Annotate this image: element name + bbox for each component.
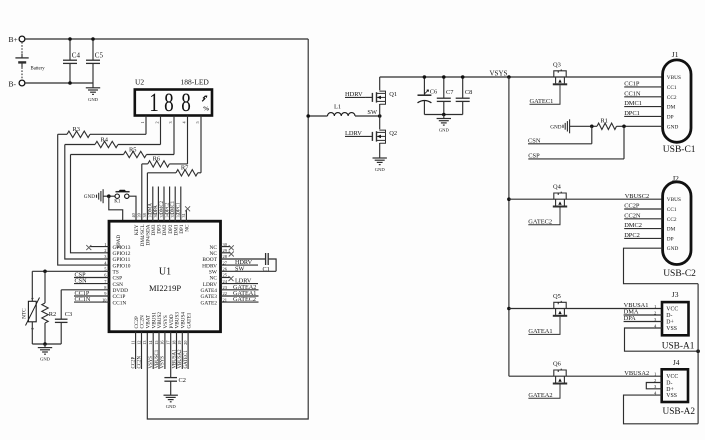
node CC2N	[624, 218, 662, 220]
capacitor C6 (polarized)	[423, 77, 425, 95]
node VBUSA2	[181, 332, 183, 369]
svg-text:CC2: CC2	[667, 95, 677, 101]
wire pin8 DVDD to C3	[61, 289, 109, 291]
svg-text:DP: DP	[667, 114, 674, 120]
capacitor C8	[462, 77, 464, 98]
svg-text:VCC: VCC	[666, 307, 678, 313]
node CC1P	[74, 295, 109, 297]
svg-text:GATE1: GATE1	[186, 312, 192, 328]
svg-text:GND: GND	[166, 404, 177, 409]
svg-text:GND: GND	[667, 124, 679, 130]
svg-text:1: 1	[149, 87, 159, 117]
svg-text:DMC1: DMC1	[171, 200, 176, 214]
svg-text:CC2: CC2	[667, 217, 677, 223]
node CSN	[591, 126, 593, 144]
ground (C2)	[164, 394, 178, 396]
transistor Q2	[379, 116, 381, 129]
wire J3 VSS loop	[625, 328, 699, 351]
node VSYS	[164, 332, 166, 369]
battery Battery	[21, 42, 23, 54]
wire R5 to GPIO12	[71, 155, 110, 253]
svg-text:VSS: VSS	[666, 393, 677, 399]
node LDRV	[221, 283, 259, 285]
svg-text:D-: D-	[666, 381, 672, 387]
node DPC2	[169, 187, 171, 222]
svg-text:1: 1	[31, 297, 35, 299]
node DMC1	[624, 106, 662, 108]
wire NTC/R2/C3 bottom	[32, 343, 61, 345]
resistor R5	[71, 154, 124, 156]
wire pin1 NC	[90, 246, 109, 248]
wire GND bus right vertical	[697, 284, 699, 424]
svg-text:GATE4: GATE4	[201, 288, 218, 294]
svg-text:39: 39	[136, 213, 141, 217]
svg-text:GND: GND	[88, 97, 99, 102]
svg-text:31: 31	[181, 213, 186, 217]
svg-text:38: 38	[142, 213, 147, 217]
svg-text:15: 15	[154, 341, 159, 345]
svg-text:DM: DM	[667, 105, 676, 111]
svg-text:HDRV: HDRV	[345, 91, 363, 98]
wire gnd to K1	[103, 195, 115, 197]
svg-text:D+: D+	[666, 320, 673, 326]
wire VSYS vertical rail	[508, 77, 510, 376]
svg-text:NC: NC	[185, 224, 191, 232]
node CSP	[74, 277, 109, 279]
node GATEA1	[221, 295, 259, 297]
svg-text:DPC1: DPC1	[177, 202, 182, 215]
svg-text:GND: GND	[84, 194, 95, 200]
node DMA	[624, 314, 662, 316]
node CC1N	[74, 301, 109, 303]
svg-text:GATEA2: GATEA2	[528, 392, 552, 399]
svg-text:CSP: CSP	[113, 276, 123, 282]
wire display pin 4	[187, 116, 189, 164]
svg-text:Battery: Battery	[31, 66, 46, 71]
pushbutton K1	[115, 194, 119, 198]
wire display pin 5	[200, 116, 202, 173]
wire VSYS to J3 VCC	[507, 307, 511, 311]
svg-text:NC: NC	[210, 245, 218, 251]
svg-text:Q2: Q2	[389, 130, 397, 137]
svg-text:CC1P: CC1P	[624, 81, 640, 88]
ground (C7)	[443, 115, 445, 119]
svg-text:U1: U1	[159, 267, 171, 278]
svg-text:C1: C1	[263, 266, 270, 273]
node CC2P	[624, 208, 662, 210]
thermistor NTC	[31, 271, 33, 301]
node LDRV (Q2 gate)	[345, 135, 372, 137]
wire C6/C7/C8 bottom	[424, 114, 462, 116]
svg-text:Q6: Q6	[553, 361, 561, 368]
svg-text:VSYS: VSYS	[161, 356, 166, 369]
wire J2 GND loop	[624, 248, 699, 284]
node DMC2	[624, 228, 662, 230]
wire K1 to EPAD pin41	[109, 196, 123, 221]
svg-text:GATEC1: GATEC1	[530, 98, 554, 105]
svg-text:GATEA1: GATEA1	[528, 328, 552, 335]
transistor Q5	[554, 302, 566, 308]
svg-text:GND: GND	[550, 124, 561, 130]
capacitor C7	[443, 77, 445, 98]
svg-text:D+: D+	[666, 387, 673, 393]
svg-text:C3: C3	[65, 311, 72, 318]
svg-text:C5: C5	[95, 52, 104, 60]
svg-text:DPA: DPA	[624, 315, 637, 322]
svg-text:17: 17	[166, 341, 171, 345]
svg-text:GATEC2: GATEC2	[528, 219, 552, 226]
svg-text:CC2P: CC2P	[131, 357, 136, 369]
node CSP	[623, 126, 625, 159]
node DPC2	[624, 237, 662, 239]
svg-text:SW: SW	[209, 270, 218, 276]
svg-text:R7: R7	[181, 165, 189, 172]
svg-text:GATEC2: GATEC2	[233, 296, 256, 303]
svg-text:SW: SW	[235, 265, 244, 272]
svg-text:CC1: CC1	[667, 207, 677, 213]
svg-text:GND: GND	[439, 128, 450, 133]
svg-text:R5: R5	[129, 146, 136, 153]
svg-text:R4: R4	[101, 136, 109, 143]
node DPA	[157, 187, 159, 222]
svg-text:DPC2: DPC2	[624, 232, 640, 239]
svg-text:CC2N: CC2N	[137, 356, 142, 369]
svg-text:C4: C4	[72, 52, 81, 60]
node SW	[221, 270, 277, 272]
svg-text:2: 2	[104, 248, 106, 253]
svg-text:B+: B+	[9, 35, 18, 44]
svg-text:C7: C7	[446, 89, 454, 96]
svg-text:CC1N: CC1N	[113, 300, 127, 306]
svg-text:DPC1: DPC1	[624, 110, 640, 117]
svg-text:CC2P: CC2P	[624, 203, 640, 210]
svg-text:DM: DM	[667, 227, 676, 233]
node GATEC1	[187, 332, 189, 369]
svg-text:LDRV: LDRV	[203, 282, 217, 288]
svg-text:VSYS: VSYS	[490, 69, 508, 77]
wire B+ to L1 and VBAT loop	[147, 39, 308, 419]
svg-text:19: 19	[177, 341, 182, 345]
svg-text:CSN: CSN	[113, 282, 124, 288]
svg-text:USB-A1: USB-A1	[662, 341, 695, 351]
wire R3 to GPIO10	[58, 134, 109, 265]
ground (Q2 source)	[373, 157, 387, 159]
node CC1N	[624, 96, 662, 98]
wire K1 to KEY pin40	[129, 196, 136, 221]
wire R6 to DM4/SCL	[141, 164, 143, 221]
svg-text:TS: TS	[113, 270, 119, 276]
wire VSYS rail	[380, 76, 663, 78]
svg-text:USB-A2: USB-A2	[663, 407, 696, 417]
node CC2N	[141, 332, 143, 369]
node CC1P	[624, 86, 662, 88]
svg-text:8: 8	[181, 87, 191, 117]
svg-text:GPIO12: GPIO12	[113, 251, 131, 257]
resistor R4	[65, 144, 95, 146]
svg-text:SW: SW	[367, 109, 378, 116]
svg-text:R2: R2	[49, 311, 56, 318]
svg-text:J4: J4	[673, 358, 680, 367]
wire pin5 TS	[32, 270, 109, 272]
wire pin25 NC	[221, 277, 231, 279]
svg-text:U2: U2	[135, 78, 144, 87]
svg-text:GATEC1: GATEC1	[184, 350, 189, 369]
svg-text:8: 8	[164, 87, 174, 117]
svg-text:GND: GND	[667, 246, 679, 252]
svg-text:13: 13	[142, 341, 147, 345]
svg-text:DVDD: DVDD	[113, 288, 129, 294]
wire R4 to GPIO11	[65, 145, 109, 260]
svg-text:Q1: Q1	[389, 91, 397, 98]
transistor Q1	[379, 77, 381, 90]
ground (NTC/R2/C3)	[44, 344, 46, 348]
svg-text:5: 5	[195, 121, 200, 123]
node HDRV (Q1 gate)	[345, 96, 365, 98]
svg-text:USB-C2: USB-C2	[663, 269, 696, 279]
svg-text:VBUSC2: VBUSC2	[625, 193, 650, 200]
wire pin30 NC	[221, 246, 231, 248]
svg-text:GND: GND	[40, 357, 51, 362]
svg-text:D-: D-	[666, 313, 672, 319]
node VBUSA1	[176, 332, 178, 369]
svg-text:VCC: VCC	[666, 374, 678, 380]
svg-text:J3: J3	[672, 290, 679, 299]
transistor Q4	[554, 193, 566, 199]
node DMC2	[163, 187, 165, 222]
svg-text:16: 16	[160, 341, 165, 345]
svg-text:VBUS: VBUS	[667, 197, 681, 203]
svg-text:HDRV: HDRV	[202, 263, 217, 269]
svg-text:GATE2: GATE2	[201, 300, 218, 306]
wire J4 D-/D+ jumper	[646, 383, 661, 389]
resistor R2	[44, 271, 46, 303]
transistor Q6	[554, 370, 566, 376]
svg-text:1: 1	[140, 121, 145, 123]
node DMA	[152, 187, 154, 222]
node CSN	[74, 283, 109, 285]
capacitor C5	[92, 39, 94, 60]
node VBUSC1	[158, 332, 160, 369]
svg-text:VBUSC1: VBUSC1	[155, 349, 160, 368]
svg-text:B-: B-	[9, 80, 17, 89]
resistor R3	[58, 133, 67, 135]
svg-text:GPIO11: GPIO11	[113, 257, 131, 263]
capacitor C1 (BOOT to SW)	[221, 258, 266, 260]
wire pin29 NC	[221, 252, 231, 254]
node DMC1	[174, 187, 176, 222]
capacitor C3	[60, 290, 62, 319]
svg-text:J1: J1	[672, 50, 679, 59]
svg-text:GPIO13: GPIO13	[113, 245, 131, 251]
svg-text:2: 2	[155, 121, 160, 123]
svg-text:K1: K1	[114, 200, 121, 205]
svg-text:NC: NC	[210, 276, 218, 282]
node CC2P	[135, 332, 137, 369]
node HDRV	[221, 264, 259, 266]
svg-text:NC: NC	[210, 251, 218, 257]
svg-text:R6: R6	[153, 156, 160, 163]
svg-text:GPIO10: GPIO10	[113, 263, 131, 269]
svg-text:L1: L1	[334, 104, 341, 111]
svg-text:VSYS: VSYS	[149, 356, 154, 369]
wire J4 VSS loop	[624, 395, 699, 424]
node GATEA2	[221, 289, 259, 291]
node DPC1	[624, 115, 662, 117]
resistor R6	[142, 163, 148, 165]
svg-text:C2: C2	[179, 377, 186, 384]
wire display pin 1	[145, 116, 147, 135]
svg-text:Q5: Q5	[553, 293, 561, 300]
svg-text:CC1: CC1	[667, 85, 677, 91]
svg-text:VSS: VSS	[666, 326, 677, 332]
svg-text:CC1N: CC1N	[75, 296, 91, 303]
wire R7 to DP4/SDA	[146, 173, 148, 221]
svg-text:VBUSA2: VBUSA2	[178, 349, 183, 369]
svg-text:C6: C6	[430, 89, 437, 96]
node GATEC2	[221, 301, 259, 303]
svg-text:CSP: CSP	[528, 153, 540, 160]
svg-text:12: 12	[136, 341, 141, 345]
lightning icon	[202, 96, 205, 101]
svg-text:GND: GND	[375, 167, 386, 172]
transistor Q3	[554, 71, 566, 77]
svg-text:DMA: DMA	[149, 203, 154, 215]
wire display pin 3	[173, 116, 175, 155]
wire VSYS to J4 VCC	[509, 375, 662, 377]
node DPC1	[180, 187, 182, 222]
capacitor C4	[69, 39, 71, 60]
svg-text:DMC2: DMC2	[624, 222, 642, 229]
svg-text:DMC1: DMC1	[624, 100, 642, 107]
svg-text:CC2N: CC2N	[624, 212, 641, 219]
wire VSYS to J2 VBUS	[507, 197, 511, 201]
svg-text:CC1N: CC1N	[624, 90, 641, 97]
svg-text:Q3: Q3	[553, 62, 561, 69]
svg-text:USB-C1: USB-C1	[663, 145, 696, 155]
resistor R7	[147, 172, 176, 174]
wire display pin 2	[160, 116, 162, 145]
svg-text:R1: R1	[601, 117, 608, 124]
svg-text:DPA: DPA	[154, 205, 159, 215]
node VSYS	[152, 332, 154, 369]
svg-text:20: 20	[183, 341, 188, 345]
resistor R1	[592, 125, 597, 127]
svg-text:DMC2: DMC2	[160, 200, 165, 214]
ground (below C5)	[92, 83, 94, 88]
svg-text:C8: C8	[465, 89, 472, 96]
svg-text:VBUSA2: VBUSA2	[624, 370, 649, 377]
svg-text:LDRV: LDRV	[345, 130, 362, 137]
svg-text:DP: DP	[667, 236, 674, 242]
svg-text:GATE3: GATE3	[201, 294, 218, 300]
svg-text:%: %	[203, 106, 210, 113]
svg-text:VBUSA1: VBUSA1	[172, 349, 177, 369]
svg-text:40: 40	[131, 213, 136, 217]
inductor L1	[308, 115, 327, 117]
svg-text:BOOT: BOOT	[202, 257, 217, 263]
svg-text:NTC: NTC	[22, 308, 28, 319]
svg-text:DPC2: DPC2	[165, 202, 170, 215]
svg-text:CSN: CSN	[528, 137, 541, 144]
capacitor C2	[170, 332, 172, 378]
wire pin31 NC	[185, 210, 187, 221]
wire B- rail	[25, 82, 93, 84]
svg-text:VBUS: VBUS	[667, 75, 681, 81]
svg-text:11: 11	[130, 341, 135, 345]
IC U1 MI2219P	[109, 221, 221, 332]
svg-text:Q4: Q4	[553, 184, 562, 191]
svg-text:CSN: CSN	[75, 278, 88, 285]
wire B+ top rail	[25, 38, 308, 40]
svg-text:CC1P: CC1P	[113, 294, 126, 300]
svg-text:R3: R3	[73, 126, 80, 133]
svg-text:188-LED: 188-LED	[181, 78, 210, 87]
svg-text:MI2219P: MI2219P	[149, 283, 181, 293]
svg-text:3: 3	[168, 121, 173, 123]
svg-text:18: 18	[171, 341, 176, 345]
node DPA	[624, 321, 662, 323]
